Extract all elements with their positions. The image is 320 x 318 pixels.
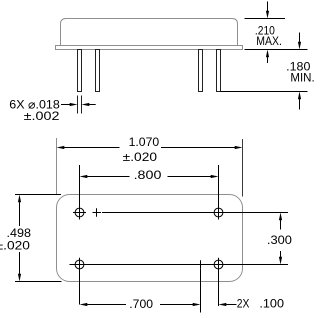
- svg-text:.700: .700: [129, 297, 153, 311]
- row 2 extension line (.300): [70, 264, 289, 266]
- pin hole top-left: [75, 208, 84, 217]
- pin 4 (side view): [217, 50, 221, 92]
- svg-text:MAX.: MAX.: [256, 34, 282, 48]
- base plate (side view): [56, 46, 243, 50]
- svg-text:.100: .100: [259, 297, 284, 311]
- extension line from bottom datum cross: [200, 269, 202, 313]
- pin hole bottom-left: [75, 260, 84, 269]
- svg-text:.300: .300: [267, 233, 292, 247]
- svg-text:2X: 2X: [237, 297, 250, 311]
- crosshair top-left horizontal: [73, 212, 86, 214]
- dimension line .700: [80, 303, 88, 306]
- extension line .498 top: [15, 194, 61, 196]
- crosshair bottom-left vertical: [79, 258, 81, 305]
- arrow for 2X .100: [219, 303, 227, 306]
- extension line .800 right / crosshair TR: [218, 165, 220, 220]
- svg-text:.800: .800: [134, 168, 162, 182]
- pin 1 (side view): [78, 50, 82, 92]
- dimension line .300: [279, 213, 282, 221]
- pin hole bottom-right: [214, 260, 223, 269]
- extension line at can top: [245, 18, 286, 20]
- pin 3 (side view): [199, 50, 203, 92]
- crosshair bottom-right vertical: [218, 258, 220, 306]
- arrow down (180 dim, upper): [299, 33, 301, 42]
- datum cross top (2X .100): [93, 212, 102, 214]
- extension line at pin bottoms: [221, 91, 308, 93]
- oscillator can body (side view): [61, 19, 238, 46]
- pin 2 (side view): [96, 50, 100, 92]
- pin diameter dimension arrows: [61, 104, 70, 106]
- arrow down to can top: [267, 2, 269, 12]
- pin hole top-right: [214, 208, 223, 217]
- extension line at plate bottom: [245, 49, 308, 51]
- dimension line 1.070: [57, 146, 65, 149]
- extension line .498 bottom: [15, 281, 62, 283]
- svg-text:±.002: ±.002: [24, 109, 60, 123]
- arrow up to pin bottom line: [298, 92, 301, 100]
- svg-text:±.020: ±.020: [0, 238, 30, 252]
- svg-text:MIN.: MIN.: [290, 70, 314, 84]
- dimension line .800: [80, 175, 88, 178]
- extension line 1.070 left: [56, 138, 58, 195]
- arrow up to plate bottom: [266, 50, 269, 58]
- datum cross bottom (2X .100): [197, 264, 206, 266]
- svg-text:±.020: ±.020: [123, 150, 158, 164]
- row 1 extension line (.300): [102, 212, 288, 214]
- svg-text:1.070: 1.070: [129, 135, 160, 149]
- footprint outline (bottom view): [57, 195, 243, 282]
- dimension line .498: [18, 195, 21, 203]
- extension line 1.070 right: [242, 139, 244, 197]
- extension line .800 left / crosshair TL: [79, 165, 81, 220]
- extension lines for pin diameter: [77, 96, 79, 114]
